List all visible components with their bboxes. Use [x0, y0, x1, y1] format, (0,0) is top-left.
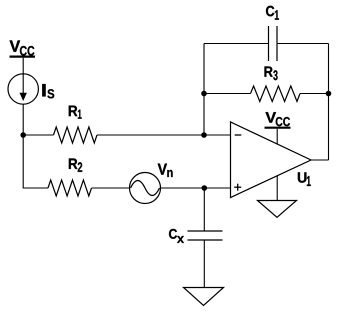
wire feedback vertical [203, 44, 205, 136]
resistor R2 [48, 180, 92, 196]
resistor R3 [251, 86, 301, 102]
label C1 [265, 67, 278, 81]
source Vn [130, 173, 161, 204]
label IS [42, 84, 54, 98]
resistor R1 [54, 127, 98, 143]
power rail VCC (left) bar [10, 55, 36, 57]
wire node B down to Cx [203, 188, 205, 231]
node E (R3 right / output junction) [326, 91, 332, 97]
label U1 [265, 112, 290, 126]
ground (op-amp) [258, 201, 297, 218]
wire Vn to + node [161, 187, 231, 189]
wire right rail [328, 44, 330, 161]
wire R2 to Vn [92, 187, 130, 189]
wire op-amp to ground [276, 176, 278, 201]
capacitor Cx [188, 231, 223, 240]
wire node A down and right to R2 [23, 135, 48, 188]
wire VCC bar to op-amp [276, 129, 278, 145]
node C (inverting input / feedback junction) [201, 132, 207, 138]
label Cx [266, 6, 279, 20]
wire Cx to ground [203, 240, 205, 288]
node D (R3 left junction) [201, 91, 207, 97]
label R2 [69, 159, 82, 172]
wire C1 right lead to right rail [277, 43, 329, 45]
op-amp U1 [231, 122, 312, 198]
current source IS [8, 74, 38, 104]
wire op-amp output [311, 159, 329, 161]
wire R3 left lead [204, 93, 251, 95]
label R3 [298, 172, 311, 186]
wire VCC bar to current source [22, 58, 24, 75]
capacitor C1 [269, 26, 278, 61]
node A (IS / R1 / R2 junction) [20, 132, 26, 138]
node B (+ input / Cx junction) [202, 185, 208, 191]
ground (bottom) [184, 288, 224, 306]
power rail VCC (op-amp) label [169, 229, 184, 243]
power rail VCC (op-amp) bar [265, 127, 291, 129]
power rail VCC (left) label [10, 40, 35, 55]
wire node A to R1 [23, 134, 53, 136]
wire C1 left lead [204, 43, 269, 45]
label R1 [69, 106, 82, 119]
wire R3 right lead [300, 93, 329, 95]
wire R1 to inverting node [97, 134, 231, 136]
wire current source to node A [22, 104, 24, 135]
label Vn [158, 164, 173, 177]
